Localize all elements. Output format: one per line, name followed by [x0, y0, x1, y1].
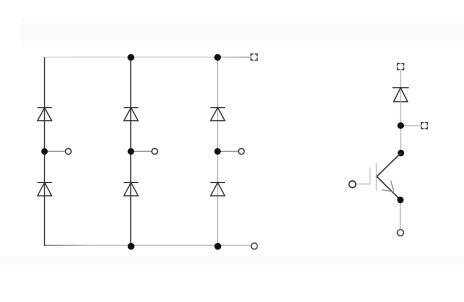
diode D2 (leg1 lower): [37, 183, 52, 196]
terminal DC+ square: [251, 54, 257, 60]
faint band lower: [0, 256, 464, 265]
diode D7 (chopper freewheel): [392, 88, 408, 102]
diode D6 (leg3 lower): [210, 183, 225, 196]
diode D1 (leg1 upper): [37, 108, 52, 121]
wire AC2 stub: [131, 150, 152, 152]
terminal AC2 circle: [152, 149, 158, 155]
wire emitter to terminal: [399, 200, 401, 230]
node leg3 bottom junction: [214, 243, 221, 250]
terminal B+ square: [421, 123, 427, 129]
diode D5 (leg3 upper): [210, 108, 225, 121]
wire leg 2 vertical: [130, 57, 132, 246]
node AC3 (leg3 midpoint dot): [214, 148, 221, 155]
node AC2 (leg2 midpoint dot): [128, 148, 135, 155]
emitter arrow barb upper: [391, 181, 394, 192]
terminal AC3 circle: [239, 149, 245, 155]
terminal DC- circle: [251, 243, 257, 249]
node leg3 top junction: [214, 54, 221, 61]
node AC1 (leg1 midpoint dot): [41, 148, 48, 155]
wire node B+ to collector node: [400, 126, 402, 153]
gate bar: [369, 168, 371, 185]
emitter diagonal: [377, 177, 401, 200]
wire AC1 stub: [45, 150, 66, 152]
diode D3 (leg2 upper): [124, 108, 139, 121]
faint band upper: [21, 18, 464, 45]
wire leg 3 vertical: [217, 57, 219, 246]
node leg2 top junction: [127, 54, 134, 61]
wire top rail (DC+ bus): [45, 56, 251, 58]
emitter arrow barb lower: [382, 190, 394, 192]
terminal chopper top square: [398, 64, 404, 70]
wire gate lead: [356, 183, 370, 185]
wire AC3 stub: [218, 150, 239, 152]
wire diode to node B+: [400, 102, 402, 126]
node collector dot: [398, 150, 405, 157]
terminal gate circle: [349, 181, 356, 188]
wire leg 1 vertical: [44, 57, 46, 246]
node emitter dot: [397, 197, 404, 204]
terminal AC1 circle: [65, 149, 71, 155]
transistor Q1 (IGBT brake chopper): [370, 153, 401, 200]
collector diagonal: [377, 153, 401, 177]
wire B+ stub: [401, 125, 422, 127]
diode D4 (leg2 lower): [124, 183, 139, 196]
body bar: [375, 163, 377, 191]
node B+ (chopper tap dot): [397, 122, 404, 129]
terminal B- circle: [397, 230, 403, 236]
wire chopper square to diode: [400, 70, 402, 102]
node leg2 bottom junction: [128, 243, 135, 250]
wire bottom rail (DC- bus): [45, 244, 252, 246]
